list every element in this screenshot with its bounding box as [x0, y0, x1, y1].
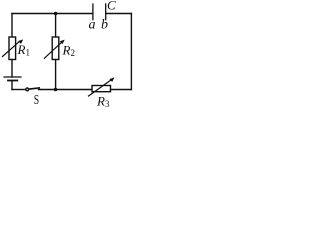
- resistor R2 body: [52, 37, 59, 60]
- battery long plate: [4, 76, 21, 78]
- arrowhead R1: [18, 39, 23, 44]
- capacitor C plate a: [92, 4, 94, 20]
- wire R2 branch top: [55, 14, 57, 38]
- arrow of rheostat R1: [3, 41, 21, 57]
- wire R3 to bottom-right corner: [111, 89, 132, 91]
- node junction top: [54, 12, 58, 16]
- switch S pivot circle: [26, 88, 29, 91]
- svg-text:a: a: [89, 18, 96, 33]
- svg-text:C: C: [107, 0, 116, 13]
- wire bottom-left to switch: [12, 89, 26, 91]
- svg-text:R1: R1: [17, 42, 30, 58]
- battery short plate: [8, 80, 17, 82]
- resistor R3 body: [92, 86, 111, 92]
- arrowhead R3: [109, 77, 114, 82]
- arrowhead R2: [60, 40, 65, 45]
- wire R2 branch bottom: [55, 60, 57, 90]
- node junction bottom: [54, 88, 58, 92]
- switch S lever: [29, 88, 39, 89]
- capacitor C plate b: [105, 4, 107, 20]
- arrow of rheostat R2: [44, 42, 62, 59]
- arrow of rheostat R3: [89, 80, 112, 96]
- wire right vertical: [130, 14, 132, 90]
- resistor R1 body: [9, 37, 16, 60]
- wire left vertical top: [11, 14, 13, 38]
- wire battery to bottom corner: [11, 81, 13, 90]
- svg-text:R2: R2: [62, 42, 75, 58]
- svg-text:b: b: [101, 18, 108, 33]
- wire switch to junction: [39, 89, 93, 91]
- wire top-right horizontal: [106, 13, 132, 15]
- svg-text:S: S: [34, 93, 39, 108]
- wire top-left horizontal: [12, 13, 93, 15]
- wire R1 to battery: [11, 60, 13, 78]
- svg-text:R3: R3: [96, 94, 110, 110]
